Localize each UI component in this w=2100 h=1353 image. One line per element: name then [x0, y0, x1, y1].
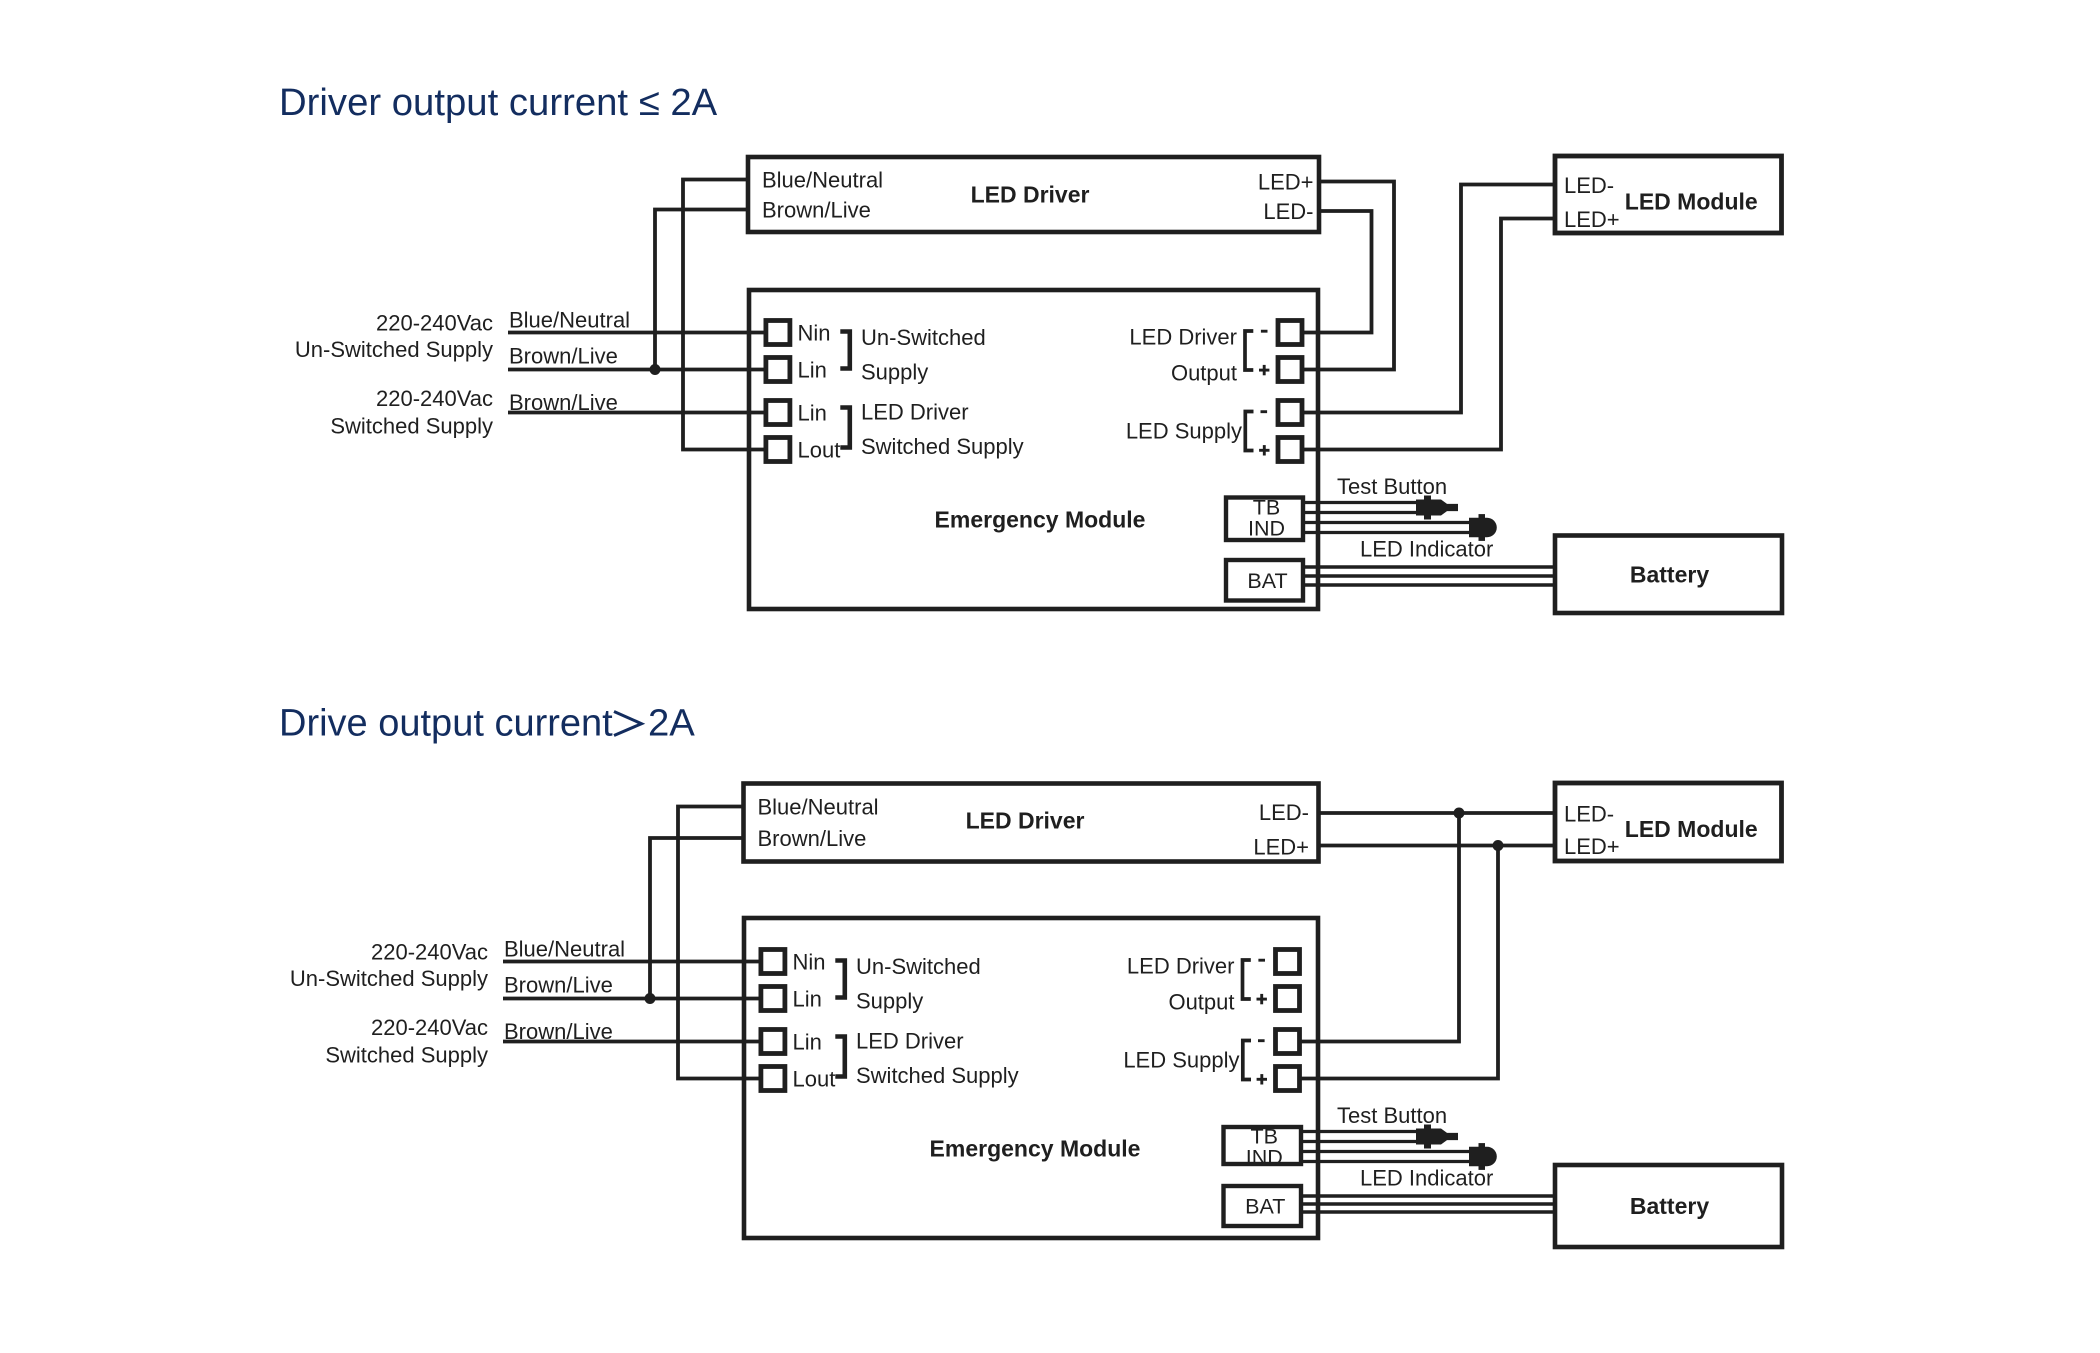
svg-text:2A: 2A	[648, 702, 695, 745]
svg-text:Test Button: Test Button	[1337, 474, 1447, 499]
svg-text:Supply: Supply	[861, 360, 928, 385]
svg-text:Lin: Lin	[793, 987, 822, 1012]
svg-text:LED Supply: LED Supply	[1126, 419, 1242, 444]
svg-text:Nin: Nin	[793, 950, 826, 975]
svg-text:Brown/Live: Brown/Live	[762, 198, 871, 223]
svg-text:220-240Vac: 220-240Vac	[371, 1015, 488, 1040]
svg-text:LED+: LED+	[1564, 207, 1620, 232]
svg-text:Brown/Live: Brown/Live	[504, 1019, 613, 1044]
svg-text:Lout: Lout	[798, 438, 841, 463]
svg-text:LED Module: LED Module	[1625, 189, 1758, 215]
svg-text:IND: IND	[1246, 1146, 1283, 1170]
svg-text:LED Module: LED Module	[1625, 816, 1758, 842]
svg-text:BAT: BAT	[1245, 1195, 1285, 1219]
svg-text:Driver output current ≤ 2A: Driver output current ≤ 2A	[279, 81, 718, 124]
svg-text:Brown/Live: Brown/Live	[509, 344, 618, 369]
svg-text:Lin: Lin	[793, 1030, 822, 1055]
svg-text:Blue/Neutral: Blue/Neutral	[504, 937, 625, 962]
svg-text:Un-Switched Supply: Un-Switched Supply	[290, 966, 488, 991]
svg-text:Un-Switched: Un-Switched	[856, 954, 981, 979]
svg-text:LED Driver: LED Driver	[966, 808, 1085, 834]
svg-text:Supply: Supply	[856, 989, 923, 1014]
svg-text:Emergency Module: Emergency Module	[930, 1136, 1141, 1162]
svg-text:Output: Output	[1168, 990, 1234, 1015]
svg-text:LED+: LED+	[1258, 170, 1314, 195]
svg-text:Switched Supply: Switched Supply	[325, 1043, 488, 1068]
svg-text:Un-Switched Supply: Un-Switched Supply	[295, 337, 493, 362]
svg-text:BAT: BAT	[1247, 569, 1287, 593]
svg-text:Lin: Lin	[798, 401, 827, 426]
svg-text:Battery: Battery	[1630, 561, 1709, 587]
svg-text:Blue/Neutral: Blue/Neutral	[758, 795, 879, 820]
svg-text:LED Indicator: LED Indicator	[1360, 537, 1493, 562]
svg-text:Un-Switched: Un-Switched	[861, 325, 986, 350]
svg-text:Lin: Lin	[798, 358, 827, 383]
svg-text:LED Driver: LED Driver	[1127, 954, 1235, 979]
svg-text:Blue/Neutral: Blue/Neutral	[762, 168, 883, 193]
svg-text:LED-: LED-	[1564, 173, 1614, 198]
svg-text:Lout: Lout	[793, 1067, 836, 1092]
svg-text:LED Supply: LED Supply	[1123, 1048, 1239, 1073]
svg-text:Output: Output	[1171, 361, 1237, 386]
svg-text:LED Driver: LED Driver	[1129, 325, 1237, 350]
svg-text:IND: IND	[1248, 517, 1285, 541]
svg-text:Drive output current: Drive output current	[279, 703, 613, 745]
svg-text:Blue/Neutral: Blue/Neutral	[509, 308, 630, 333]
svg-text:Brown/Live: Brown/Live	[504, 973, 613, 998]
svg-text:LED-: LED-	[1259, 800, 1309, 825]
svg-text:Emergency Module: Emergency Module	[935, 507, 1146, 533]
svg-text:LED+: LED+	[1253, 835, 1309, 860]
svg-text:LED-: LED-	[1263, 199, 1313, 224]
svg-text:LED Driver: LED Driver	[971, 182, 1090, 208]
svg-text:220-240Vac: 220-240Vac	[376, 311, 493, 336]
svg-text:Brown/Live: Brown/Live	[509, 390, 618, 415]
svg-text:Switched Supply: Switched Supply	[861, 434, 1024, 459]
svg-text:220-240Vac: 220-240Vac	[371, 940, 488, 965]
svg-text:Switched Supply: Switched Supply	[330, 414, 493, 439]
svg-text:Test Button: Test Button	[1337, 1103, 1447, 1128]
svg-text:Nin: Nin	[798, 321, 831, 346]
svg-text:LED Driver: LED Driver	[861, 400, 969, 425]
svg-text:Switched Supply: Switched Supply	[856, 1063, 1019, 1088]
svg-text:Battery: Battery	[1630, 1193, 1709, 1219]
svg-text:LED+: LED+	[1564, 834, 1620, 859]
svg-text:Brown/Live: Brown/Live	[758, 826, 867, 851]
svg-text:220-240Vac: 220-240Vac	[376, 386, 493, 411]
svg-text:LED Driver: LED Driver	[856, 1029, 964, 1054]
svg-text:LED Indicator: LED Indicator	[1360, 1166, 1493, 1191]
svg-text:LED-: LED-	[1564, 802, 1614, 827]
